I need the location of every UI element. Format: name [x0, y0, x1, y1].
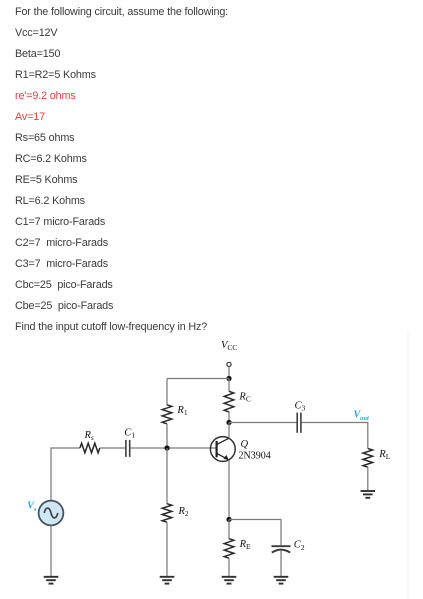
wire Rs to C1: [100, 447, 126, 449]
svg-text:R1: R1: [176, 405, 187, 417]
node Vcc rail junction: [226, 376, 231, 381]
capacitor C2 (polarized): [272, 546, 291, 552]
wire R1 to base node: [166, 424, 168, 448]
wire top rail: [167, 378, 229, 380]
svg-text:Rs: Rs: [84, 430, 94, 442]
svg-text:R2: R2: [178, 506, 189, 518]
wire collector: [228, 423, 230, 439]
wire Vs to Rs: [51, 448, 80, 501]
node collector junction: [226, 420, 231, 425]
wire C1 to base: [130, 447, 216, 449]
ground (C2): [274, 577, 289, 584]
wire rail to RC: [228, 379, 230, 392]
ground (RL): [361, 491, 376, 498]
wire RL to ground: [367, 467, 369, 491]
wire rail to R1: [166, 379, 168, 406]
Vcc supply terminal: [227, 362, 231, 366]
svg-text:Vs: Vs: [27, 501, 37, 514]
node base junction: [164, 445, 169, 450]
svg-text:C1: C1: [124, 427, 135, 439]
source Vs (AC source): [39, 501, 64, 526]
svg-text:Vout: Vout: [354, 410, 370, 423]
wire Vs to ground: [50, 525, 52, 576]
node emitter junction: [226, 517, 231, 522]
resistor Rs: [80, 443, 100, 453]
resistor RL: [363, 448, 373, 467]
svg-text:RC: RC: [238, 392, 250, 404]
wire base node to R2: [166, 448, 168, 504]
svg-text:C2: C2: [294, 540, 305, 552]
resistor RC: [224, 391, 234, 412]
transistor Q1 2N3904: [210, 437, 235, 462]
resistor R2: [162, 504, 172, 523]
wire C2 to ground: [280, 551, 282, 577]
svg-text:2N3904: 2N3904: [239, 450, 271, 461]
figure right edge line: [407, 333, 409, 599]
ground (RE): [222, 577, 237, 584]
wire RE to ground: [228, 558, 230, 576]
wire RC to collector node: [228, 412, 230, 423]
wire R2 to ground: [166, 522, 168, 576]
resistor RE: [224, 539, 234, 559]
resistor R1: [162, 405, 172, 424]
svg-text:RE: RE: [239, 539, 251, 551]
svg-text:VCC: VCC: [221, 340, 237, 352]
svg-text:Q: Q: [241, 439, 249, 450]
capacitor C3: [297, 413, 301, 433]
wire collector to C3: [229, 422, 297, 424]
wire emitter node to RE: [228, 520, 230, 540]
capacitor C1: [126, 440, 130, 457]
svg-text:RL: RL: [378, 449, 390, 461]
wire emitter node to C2: [229, 520, 281, 546]
wire C3 to RL: [301, 423, 367, 449]
ground (Vs): [44, 577, 59, 584]
wire emitter down: [228, 460, 230, 520]
ground (R2): [160, 577, 175, 584]
svg-text:C3: C3: [295, 400, 306, 412]
wire Vcc stub: [228, 367, 230, 379]
